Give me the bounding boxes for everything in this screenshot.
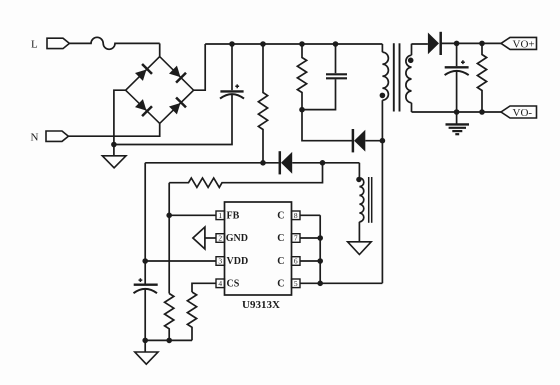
- pin 4 CS: [216, 279, 240, 290]
- capacitor C1 bulk electrolytic: [220, 44, 244, 99]
- svg-text:7: 7: [294, 234, 298, 243]
- node ground rail left: [142, 338, 148, 344]
- svg-text:CS: CS: [227, 279, 240, 290]
- wire VDD net y162: [145, 162, 278, 164]
- wire FB vertical: [168, 183, 170, 294]
- pin 8 C: [277, 211, 320, 222]
- svg-text:VO-: VO-: [513, 107, 533, 119]
- node snubber bottom junction: [299, 107, 305, 113]
- node bus snubber capacitor tap: [333, 41, 339, 47]
- svg-text:4: 4: [218, 279, 222, 288]
- pin 6 C: [277, 256, 320, 267]
- node output cap top: [454, 41, 460, 47]
- connector VO-: [501, 106, 537, 119]
- transformer aux core: [369, 177, 372, 223]
- svg-text:1: 1: [218, 211, 222, 220]
- wire drain bus right of IC: [320, 215, 382, 283]
- node ground rail FB resistor: [166, 338, 172, 344]
- node startup resistor bottom: [260, 160, 266, 166]
- pin 3 VDD: [216, 256, 248, 267]
- wire bridge left vertex to primary ground: [114, 90, 126, 156]
- svg-text:5: 5: [294, 279, 298, 288]
- svg-text:N: N: [31, 131, 39, 143]
- ground primary (triangle): [102, 156, 126, 168]
- svg-text:8: 8: [294, 211, 298, 220]
- pin 1 FB: [216, 211, 240, 222]
- svg-text:VO+: VO+: [513, 38, 535, 50]
- wire secondary top to diode: [412, 43, 428, 45]
- svg-text:3: 3: [218, 257, 222, 266]
- ground VDD rail (triangle): [135, 340, 158, 364]
- svg-text:C: C: [277, 256, 284, 267]
- fuse F1: [69, 37, 159, 49]
- transformer T1 primary winding: [380, 44, 389, 283]
- pin 7 C: [277, 233, 320, 244]
- wire bottom ground rail: [145, 339, 192, 341]
- wire N to bridge bottom: [68, 123, 159, 136]
- resistor R4 feedback upper: [169, 163, 322, 188]
- svg-text:VDD: VDD: [227, 256, 249, 267]
- diode D2 clamp: [353, 129, 383, 152]
- svg-text:U9313X: U9313X: [242, 299, 280, 311]
- transformer T1 secondary winding: [406, 44, 414, 112]
- node FB junction: [166, 213, 172, 219]
- svg-text:2: 2: [218, 234, 222, 243]
- wire L input to bridge top: [159, 43, 161, 56]
- svg-text:6: 6: [294, 257, 298, 266]
- ground secondary (earth): [446, 112, 470, 134]
- node bus C1 tap: [229, 41, 235, 47]
- resistor R5 feedback lower: [165, 294, 174, 341]
- svg-text:C: C: [277, 279, 284, 290]
- diode D4 aux rectifier: [280, 151, 360, 174]
- resistor snubber R2: [297, 44, 306, 110]
- svg-text:FB: FB: [227, 211, 240, 222]
- wire FB to pin1: [169, 214, 216, 216]
- wire HV+ top bus: [205, 43, 382, 45]
- capacitor C3 output electrolytic: [445, 43, 469, 112]
- svg-text:L: L: [31, 39, 38, 51]
- node primary ground junction: [111, 142, 117, 148]
- pin 5 C: [277, 279, 320, 290]
- wire CS pin to sense resistor: [192, 283, 216, 292]
- node VDD tap: [142, 258, 148, 264]
- svg-text:C: C: [277, 211, 284, 222]
- connector N: [31, 131, 69, 143]
- wire primary ground rail to C1 bottom: [114, 94, 232, 144]
- bridge rectifier BR1: [126, 57, 194, 124]
- node bus startup resistor tap: [260, 41, 266, 47]
- node load resistor top: [479, 41, 485, 47]
- node drain junction: [380, 138, 386, 144]
- capacitor C4 VDD electrolytic: [134, 278, 158, 340]
- svg-text:GND: GND: [226, 233, 248, 244]
- op-amp U1 body U9313X: [225, 202, 292, 311]
- node pin5 bus: [317, 281, 323, 287]
- diode D3 output rectifier: [428, 32, 501, 55]
- capacitor snubber C2: [302, 44, 347, 110]
- node bus snubber resistor tap: [299, 41, 305, 47]
- wire VDD to pin3: [145, 260, 216, 262]
- resistor R6 current sense: [187, 292, 196, 340]
- wire secondary bottom rail: [412, 111, 502, 113]
- transformer T1 aux winding: [356, 163, 364, 242]
- wire snubber to clamp diode: [302, 110, 352, 141]
- node load resistor bottom: [479, 109, 485, 115]
- connector VO+: [501, 37, 537, 50]
- ground aux (triangle): [348, 242, 372, 255]
- resistor startup R1: [258, 44, 267, 163]
- resistor R3 load: [477, 43, 486, 112]
- connector L: [31, 38, 69, 50]
- node pin7 bus: [317, 235, 323, 241]
- node pin6 bus: [317, 258, 323, 264]
- transformer T1 core: [394, 43, 400, 111]
- svg-text:C: C: [277, 233, 284, 244]
- wire left VDD rail vertical: [144, 163, 146, 285]
- node secondary ground junction: [454, 109, 460, 115]
- wire bridge right vertex to HV bus: [194, 44, 206, 90]
- ground arrow GND pin: [193, 227, 216, 249]
- pin 2 GND: [216, 233, 248, 244]
- node aux feedback tap: [320, 160, 326, 166]
